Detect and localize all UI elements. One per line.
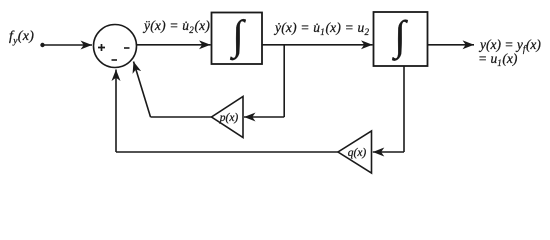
wire p(x) output horizontal [151,116,212,118]
integrator block U2 [374,12,428,66]
wire p(x) output diagonal to summing junction [134,62,151,118]
summing junction [94,25,137,68]
svg-text:∫: ∫ [391,14,408,62]
minus sign right [124,47,130,49]
node junction tap to q(x) from integrator U2 bottom [403,66,405,152]
svg-text:p(x): p(x) [219,112,239,124]
amplifier p(x) [212,97,244,138]
svg-text:q(x): q(x) [348,147,367,159]
wire q(x) feedback up to summing junction [115,70,117,153]
svg-text:∫: ∫ [229,13,246,61]
minus sign bottom [112,59,118,61]
node junction tap to p(x) [283,45,285,117]
input node dot [40,43,44,47]
wire tap to q(x) amplifier [373,151,404,153]
wire q(x) output horizontal [116,151,338,153]
integrator block U1 [212,13,263,65]
plus sign [98,44,105,51]
amplifier q(x) [338,131,372,173]
svg-text:ÿ(x) = u̇2(x): ÿ(x) = u̇2(x) [142,18,210,35]
wire summing junction to integrator U1 [137,44,211,46]
wire tap to p(x) amplifier [244,116,284,118]
svg-text:fy(x): fy(x) [9,29,34,47]
wire integrator U1 to integrator U2 [262,44,373,46]
wire input dot to summing junction [44,44,92,46]
wire integrator U2 to output [428,44,475,46]
